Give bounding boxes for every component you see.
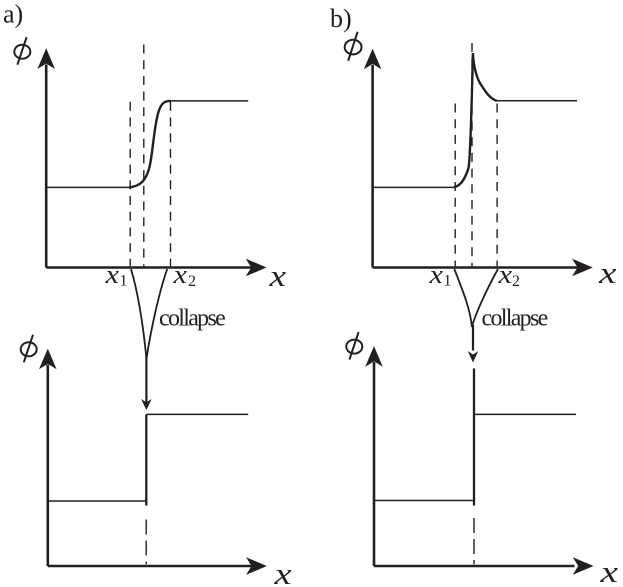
svg-text:x: x xyxy=(428,260,443,289)
svg-text:x: x xyxy=(268,258,286,293)
svg-text:collapse: collapse xyxy=(159,306,225,332)
svg-text:x: x xyxy=(273,556,292,587)
svg-text:x: x xyxy=(598,255,617,290)
svg-text:x: x xyxy=(497,260,512,289)
svg-text:2: 2 xyxy=(188,273,196,290)
svg-text:2: 2 xyxy=(512,273,520,290)
svg-text:x: x xyxy=(172,260,187,289)
svg-text:1: 1 xyxy=(120,273,128,290)
svg-text:collapse: collapse xyxy=(482,306,548,332)
svg-text:x: x xyxy=(104,260,119,289)
svg-text:1: 1 xyxy=(444,273,452,290)
svg-text:b): b) xyxy=(330,4,352,33)
svg-text:x: x xyxy=(599,554,618,587)
svg-text:a): a) xyxy=(3,0,23,29)
